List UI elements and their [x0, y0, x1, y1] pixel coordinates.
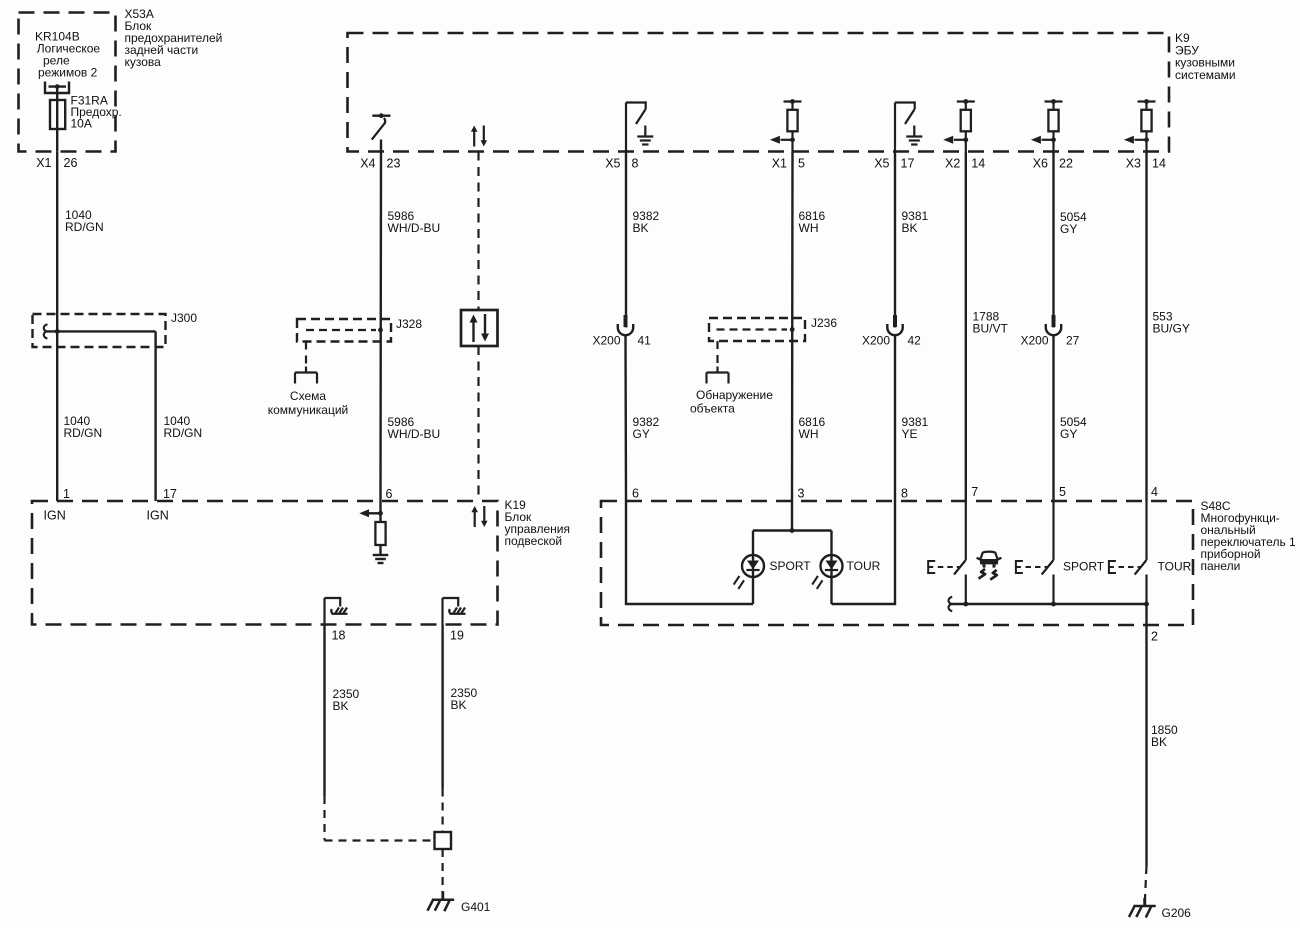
svg-text:10А: 10А — [71, 117, 92, 131]
svg-text:RD/GN: RD/GN — [65, 220, 104, 234]
svg-text:2: 2 — [1151, 630, 1158, 644]
K19 internal: wire from pin 6 — [379, 501, 381, 522]
in-line connector X200 pin 41 — [618, 315, 633, 335]
svg-text:27: 27 — [1066, 334, 1080, 348]
svg-text:17: 17 — [163, 487, 177, 501]
svg-text:GY: GY — [1060, 222, 1077, 236]
svg-text:X6: X6 — [1033, 157, 1048, 171]
splice J236 internal bus (dashed) — [717, 328, 788, 330]
LED supply bus — [753, 529, 832, 531]
splice J328 (dashed box) — [297, 319, 391, 342]
svg-text:BK: BK — [902, 221, 918, 235]
signal ground inside K19 — [373, 555, 389, 563]
svg-text:6: 6 — [632, 487, 639, 501]
svg-text:панели: панели — [1201, 559, 1241, 573]
svg-text:14: 14 — [1152, 157, 1166, 171]
svg-text:BU/GY: BU/GY — [1153, 322, 1190, 336]
svg-text:WH: WH — [799, 427, 819, 441]
relay KR104B contact symbol — [45, 82, 69, 94]
splice curl at J300 — [44, 324, 48, 338]
LED return wire to pin 8 — [832, 501, 896, 604]
wire 2350 BK from pin 18 — [323, 625, 325, 797]
label Обнаружение объекта — [690, 388, 773, 416]
wire 9381 BK from X5:17 to connector X200:42 — [894, 152, 896, 328]
pin X4:23 of K9 — [360, 157, 400, 171]
svg-text:42: 42 — [908, 334, 922, 348]
svg-text:TOUR: TOUR — [1158, 560, 1192, 574]
svg-text:7: 7 — [971, 485, 978, 499]
wire into LED TOUR — [830, 531, 832, 605]
wire 1040 RD/GN to K19 pin 17 — [154, 347, 156, 501]
svg-text:X5: X5 — [874, 157, 889, 171]
ground eyelet (splice square) above G401 — [435, 832, 452, 849]
in-line connector X200 pin 42 — [887, 315, 902, 335]
svg-text:19: 19 — [450, 629, 464, 643]
data link connector box with arrows — [461, 310, 498, 346]
splice J300 bus bar — [46, 331, 156, 347]
K9 internal pull-up resistor at pin X1:5 — [770, 99, 802, 151]
junction dot at J328 — [378, 328, 383, 333]
wire 5986 WH/D-BU from X4:23 — [379, 152, 382, 502]
wire 9382 GY from X200:41 to S48C pin 6 — [624, 336, 627, 502]
svg-text:J328: J328 — [396, 317, 422, 331]
svg-text:X4: X4 — [360, 157, 375, 171]
svg-text:IGN: IGN — [44, 509, 66, 523]
wire 5054 GY from X6:22 to connector X200:27 — [1052, 152, 1054, 328]
dashed lead to ground G206 — [1145, 866, 1147, 898]
stub to ground G401 — [441, 891, 443, 900]
pin X6:22 of K9 — [1033, 157, 1073, 171]
svg-text:18: 18 — [332, 629, 346, 643]
svg-text:X2: X2 — [945, 157, 960, 171]
svg-text:G206: G206 — [1162, 906, 1192, 920]
svg-text:Обнаружение: Обнаружение — [696, 388, 773, 402]
wire 5054 GY from X200:27 to S48C pin 5 — [1052, 336, 1054, 502]
ground G206 symbol — [1129, 898, 1156, 918]
module K9 body control ECU (dashed box) — [348, 33, 1170, 152]
svg-text:YE: YE — [902, 427, 918, 441]
K9 internal switch at pin X4:23 — [372, 113, 391, 151]
wire from switch bus to pin 2 — [1145, 604, 1147, 625]
svg-text:BK: BK — [451, 698, 467, 712]
svg-text:WH/D-BU: WH/D-BU — [388, 427, 441, 441]
svg-text:режимов 2: режимов 2 — [38, 66, 98, 80]
svg-text:BK: BK — [333, 699, 349, 713]
svg-text:5: 5 — [1059, 485, 1066, 499]
switch common bus inside S48C — [951, 603, 1147, 605]
off-page bracket (communication schematic) — [295, 367, 317, 384]
K9 internal switch to ground at pin X5:17 — [895, 103, 922, 152]
wire 1040 RD/GN from fuse to splice J300 — [56, 151, 58, 331]
splice curl at switch bus end — [949, 597, 953, 611]
data link arrows inside K9 — [471, 126, 487, 147]
wire into LED SPORT — [752, 531, 754, 605]
svg-text:TOUR: TOUR — [847, 559, 881, 573]
wire 9381 YE from X200:42 to S48C pin 8 — [894, 336, 896, 502]
K9 internal pull-up resistor at pin X2:14 — [943, 99, 975, 151]
stub to ground G206 — [1144, 898, 1146, 906]
chassis ground hook at K19 pin 19 — [443, 598, 466, 625]
relay KR104B label — [35, 30, 100, 80]
splice J236 (dashed box) — [709, 318, 805, 341]
dashed continuation of wire 18 to splice eyelet — [325, 796, 435, 841]
svg-text:X1: X1 — [36, 156, 51, 170]
pin X2:14 of K9 — [945, 157, 985, 171]
svg-text:8: 8 — [901, 487, 908, 501]
svg-text:BU/VT: BU/VT — [973, 322, 1009, 336]
in-line connector X200 pin 27 — [1046, 315, 1061, 335]
svg-text:X1: X1 — [772, 157, 787, 171]
module S48C multifunction switch (dashed box) — [601, 501, 1193, 625]
svg-text:X200: X200 — [592, 334, 620, 348]
junction dot on LED bus — [790, 528, 795, 533]
svg-text:3: 3 — [798, 487, 805, 501]
off-page bracket (object detection) — [707, 367, 729, 384]
svg-text:X200: X200 — [862, 334, 890, 348]
pushbutton switch SPORT at pin 5 — [1015, 501, 1056, 606]
svg-text:23: 23 — [387, 157, 401, 171]
wire 553 BU/GY from X3:14 to S48C pin 4 — [1145, 152, 1147, 502]
pin X5:8 of K9 — [605, 157, 638, 171]
svg-text:X3: X3 — [1126, 157, 1141, 171]
svg-text:BK: BK — [633, 221, 649, 235]
svg-text:17: 17 — [901, 157, 915, 171]
svg-text:GY: GY — [633, 427, 650, 441]
pushbutton switch TOUR at pin 4 — [1108, 501, 1149, 606]
svg-text:коммуникаций: коммуникаций — [268, 403, 349, 417]
svg-text:GY: GY — [1060, 427, 1077, 441]
svg-text:WH/D-BU: WH/D-BU — [388, 221, 441, 235]
pin X5:17 of K9 — [874, 157, 914, 171]
splice J300 (dashed box) — [33, 314, 166, 347]
svg-text:SPORT: SPORT — [1063, 560, 1105, 574]
svg-text:14: 14 — [971, 157, 985, 171]
data link arrows inside K19 — [471, 506, 487, 527]
svg-text:26: 26 — [64, 156, 78, 170]
wire 9382 BK from X5:8 to connector X200:41 — [625, 152, 627, 328]
chassis ground hook at K19 pin 18 — [325, 598, 348, 625]
K9 internal pull-up resistor at pin X6:22 — [1031, 99, 1063, 151]
svg-text:6: 6 — [386, 487, 393, 501]
svg-text:4: 4 — [1151, 485, 1158, 499]
pin X3:14 of K9 — [1126, 157, 1166, 171]
K9 internal pull-up resistor at pin X3:14 — [1124, 99, 1156, 151]
svg-text:41: 41 — [638, 334, 652, 348]
module K19 suspension control unit (dashed box) — [32, 501, 498, 625]
dashed lead to ground G401 — [442, 849, 444, 891]
K19 internal signal arrow (left) — [359, 509, 383, 517]
serial data line (dashed) K9 to DLC symbol — [477, 152, 479, 311]
dashed drop from J236 to object detection circuit — [716, 341, 718, 367]
fuse box X53A (rear body fuse block, dashed outline) — [19, 13, 116, 152]
junction dot at J236 — [790, 327, 795, 332]
svg-text:BK: BK — [1151, 735, 1167, 749]
svg-text:кузова: кузова — [125, 55, 162, 69]
svg-text:SPORT: SPORT — [770, 559, 812, 573]
svg-text:5: 5 — [798, 157, 805, 171]
svg-text:RD/GN: RD/GN — [64, 426, 103, 440]
K9 internal switch to ground at pin X5:8 — [626, 103, 653, 152]
svg-text:X200: X200 — [1020, 334, 1048, 348]
svg-text:1: 1 — [63, 487, 70, 501]
fuse F31RA 10A — [50, 100, 65, 129]
wire resistor to ground — [379, 545, 381, 555]
pushbutton switch (ESC off) at pin 7 — [927, 501, 968, 606]
wire 6816 WH from X1:5 through J236 — [791, 152, 794, 502]
svg-text:подвеской: подвеской — [505, 534, 563, 548]
LED indicator SPORT — [734, 555, 764, 589]
ground G401 symbol — [428, 892, 455, 912]
LED indicator TOUR — [812, 555, 842, 589]
pin X1:26 of X53A — [36, 156, 77, 170]
svg-text:IGN: IGN — [147, 509, 169, 523]
serial data line (dashed) to K19 — [477, 346, 479, 501]
wire 2350 BK from pin 19 — [441, 625, 443, 789]
vehicle skid icon (ESC) — [977, 552, 1002, 580]
label Схема коммуникаций — [268, 389, 349, 417]
dashed continuation of wire 19 to splice eyelet — [442, 789, 444, 833]
svg-text:WH: WH — [799, 221, 819, 235]
wire from relay through fuse F31RA — [56, 87, 58, 152]
svg-text:8: 8 — [632, 157, 639, 171]
dashed drop from J328 to communication schematic — [305, 342, 307, 368]
LED return wire to pin 6 — [626, 501, 753, 604]
svg-text:J300: J300 — [171, 311, 197, 325]
junction dot at J300 — [55, 329, 60, 334]
svg-text:Схема: Схема — [290, 389, 326, 403]
svg-text:X5: X5 — [605, 157, 620, 171]
wire 1040 RD/GN to K19 pin 1 — [56, 331, 58, 501]
svg-text:J236: J236 — [811, 316, 837, 330]
pin X1:5 of K9 — [772, 157, 805, 171]
svg-text:системами: системами — [1175, 68, 1236, 82]
svg-text:RD/GN: RD/GN — [164, 426, 203, 440]
wire from pin 3 to LED bus — [791, 501, 793, 531]
wire 1788 BU/VT from X2:14 to S48C pin 7 — [965, 152, 967, 502]
svg-text:22: 22 — [1059, 157, 1073, 171]
svg-text:объекта: объекта — [690, 402, 735, 416]
wire 1850 BK from S48C pin 2 — [1145, 625, 1147, 866]
splice J328 internal bus (dashed) — [306, 329, 376, 331]
resistor inside K19 at pin 6 — [375, 522, 385, 545]
svg-text:G401: G401 — [461, 900, 491, 914]
